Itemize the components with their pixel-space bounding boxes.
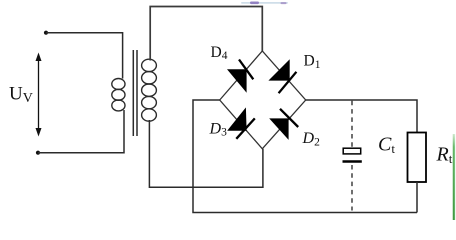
- label D4: [211, 44, 228, 62]
- label UV: [9, 84, 33, 107]
- label D3: [209, 120, 228, 138]
- terminal dot top: [44, 31, 48, 35]
- wire bottom terminal to transformer primary: [38, 110, 124, 153]
- transformer secondary winding: [142, 59, 157, 121]
- wire resistor bottom to rail: [416, 182, 418, 213]
- capacitor Ct plates: [343, 148, 362, 161]
- label D2: [302, 130, 321, 148]
- voltage arrow: [36, 53, 42, 137]
- transformer primary winding: [112, 79, 125, 111]
- diode D2: [269, 109, 298, 140]
- diode D3: [227, 107, 255, 138]
- transformer core: [133, 50, 137, 136]
- resistor Rt: [408, 133, 427, 183]
- diode D4: [227, 60, 253, 93]
- scan artifact blue streak top: [241, 2, 288, 5]
- label D1: [304, 53, 321, 71]
- terminal dot bottom: [36, 151, 40, 155]
- wire bridge left node to bottom rail: [193, 100, 417, 213]
- capacitor Ct dashed connection top: [351, 101, 353, 148]
- diode D1: [268, 59, 296, 93]
- wire secondary bottom to bridge bottom node: [149, 120, 263, 187]
- scan artifact green line right edge: [452, 134, 455, 220]
- wire secondary top to bridge top node: [150, 7, 262, 61]
- wire top terminal to transformer primary: [46, 33, 123, 79]
- bridge diamond wires: [220, 51, 306, 149]
- capacitor Ct dashed connection bottom: [351, 165, 353, 211]
- label Ct: [378, 134, 395, 157]
- label Rt: [436, 144, 453, 167]
- wire bridge right node to resistor: [306, 100, 417, 133]
